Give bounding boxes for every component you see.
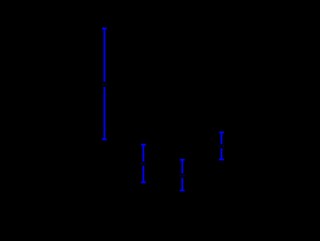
wire: lower segment bar 2	[142, 166, 144, 183]
top cap bar 1	[102, 28, 107, 30]
wire: lower segment bar 4	[221, 148, 223, 159]
wire: upper segment bar 4	[221, 132, 223, 144]
marker ring 1	[102, 83, 108, 85]
top cap bar 3	[180, 159, 185, 161]
bottom cap bar 1	[102, 138, 107, 140]
marker ring 2	[141, 163, 147, 165]
top cap bar 2	[141, 144, 146, 146]
error bar 3 (x=182.3, point y=175.6, top cap y=159.8, bottom cap y=190.4)	[180, 160, 186, 191]
wire: lower segment bar 1	[103, 87, 105, 139]
wire: upper segment bar 3	[181, 160, 183, 174]
marker ring 4	[219, 145, 224, 147]
wire: upper segment bar 2	[142, 145, 144, 162]
wire: lower segment bar 3	[181, 178, 183, 191]
wire: upper segment bar 1	[103, 29, 105, 82]
bottom cap bar 3	[180, 189, 185, 191]
top cap bar 4	[219, 131, 224, 133]
bottom cap bar 4	[219, 159, 224, 161]
error bar 4 (x=221.5, point y=146.2, top cap y=132.4, bottom cap y=159.5)	[219, 132, 224, 159]
marker ring 3	[180, 175, 186, 177]
error bar 1 (x=104.4, point y=84.3, top cap y=28.5, bottom cap y=139.4)	[102, 29, 108, 140]
error bar 2 (x=143.4, point y=163.6, top cap y=144.6, bottom cap y=182.4)	[141, 145, 147, 183]
bottom cap bar 2	[141, 181, 146, 183]
